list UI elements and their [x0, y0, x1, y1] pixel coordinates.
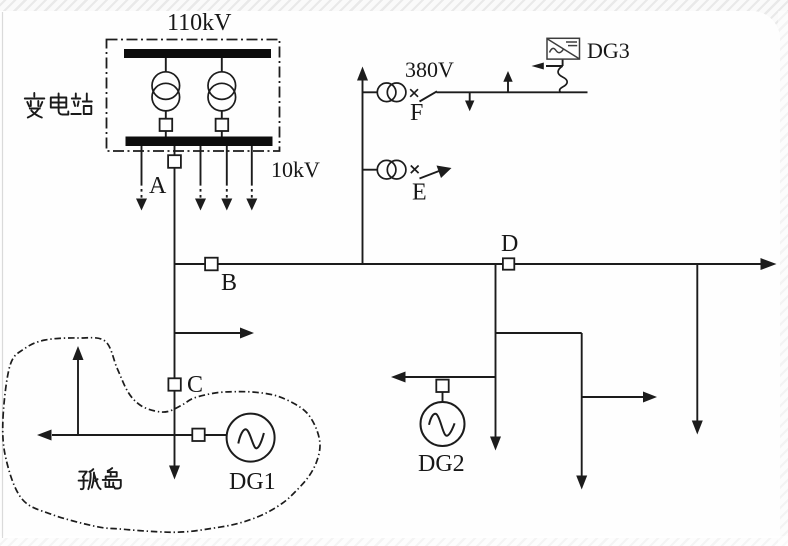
svg-text:DG3: DG3: [587, 38, 630, 63]
svg-text:DG1: DG1: [229, 469, 276, 495]
svg-text:A: A: [149, 173, 167, 199]
svg-text:C: C: [187, 372, 203, 398]
svg-text:F: F: [410, 100, 423, 126]
svg-text:E: E: [412, 180, 427, 206]
svg-text:D: D: [501, 231, 518, 257]
svg-text:380V: 380V: [405, 57, 454, 82]
svg-text:10kV: 10kV: [271, 157, 320, 182]
svg-text:110kV: 110kV: [167, 10, 232, 36]
svg-text:B: B: [221, 270, 237, 296]
svg-text:DG2: DG2: [418, 451, 465, 477]
